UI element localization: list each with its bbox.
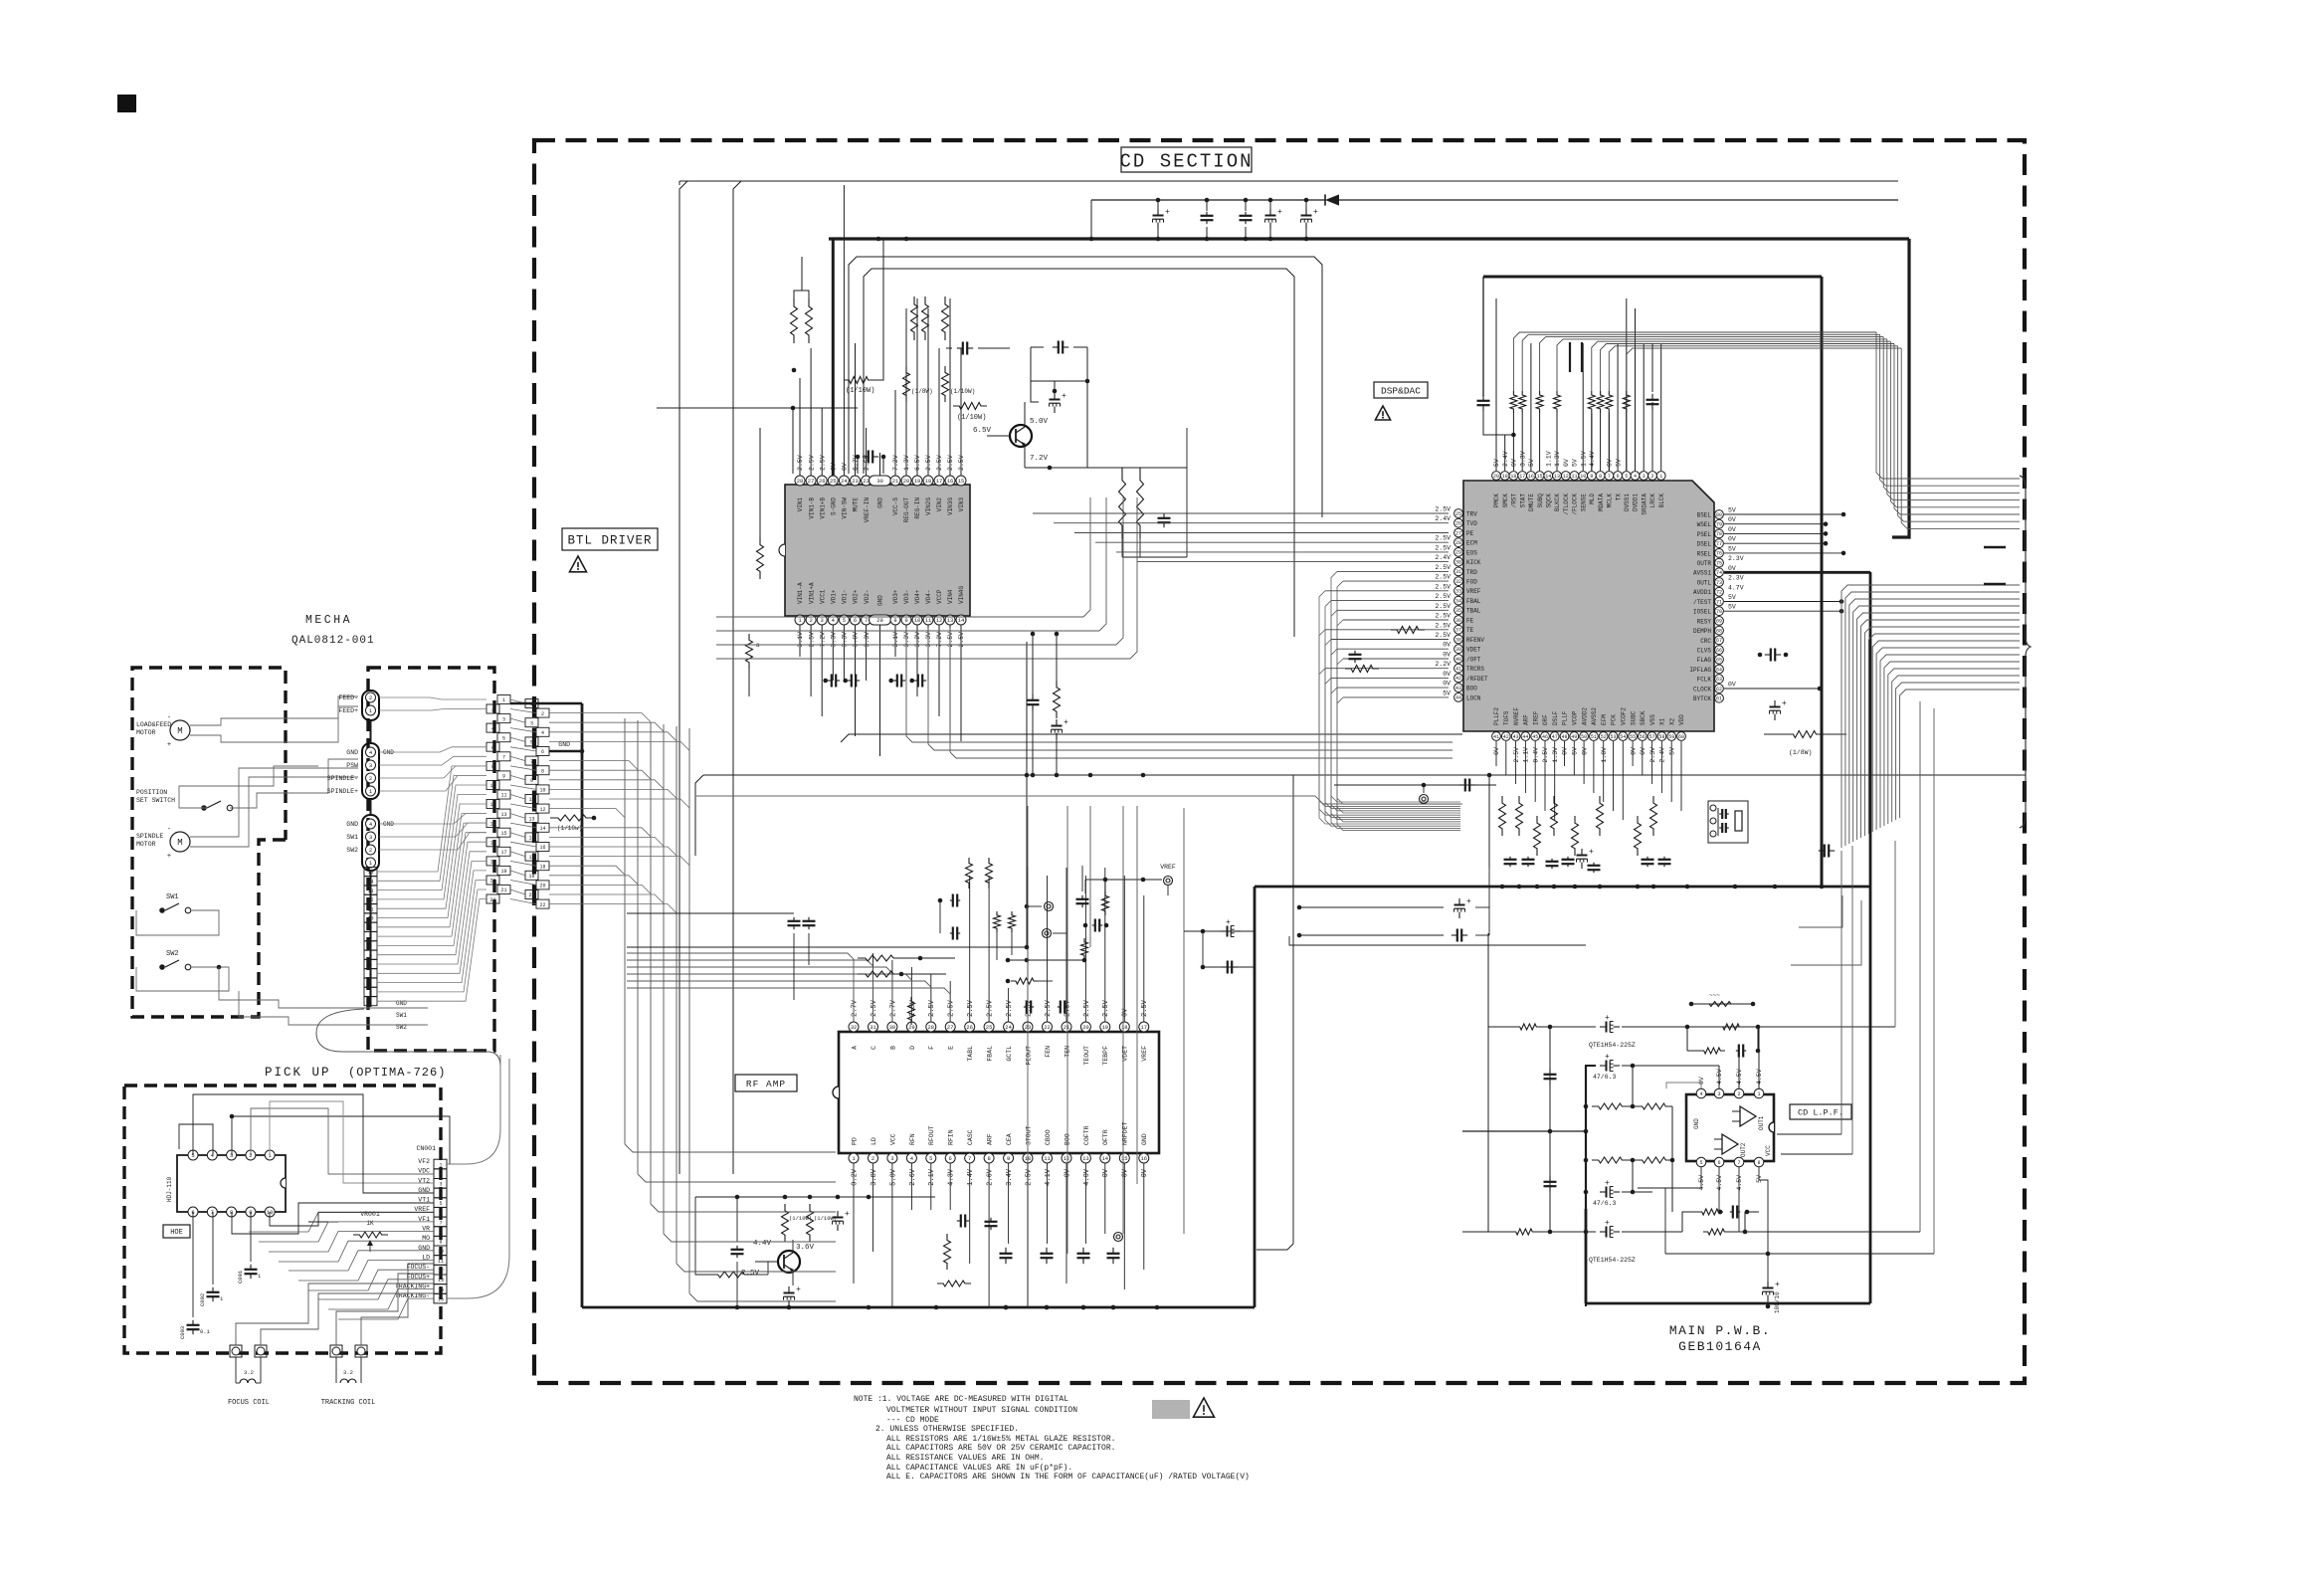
svg-text:28: 28 xyxy=(1455,540,1461,546)
svg-text:2.5V: 2.5V xyxy=(1435,544,1451,551)
resistor v left of BTL xyxy=(757,537,764,579)
svg-text:3.6V: 3.6V xyxy=(796,1244,815,1252)
nested corners left of thick 1881 xyxy=(1799,895,1842,927)
svg-text:5: 5 xyxy=(929,1155,932,1162)
svg-text:VCC: VCC xyxy=(889,1133,896,1145)
svg-text:CRC: CRC xyxy=(1700,638,1711,645)
svg-text:31: 31 xyxy=(870,1024,876,1031)
svg-text:IREF: IREF xyxy=(1532,710,1539,725)
svg-text:22: 22 xyxy=(539,902,545,908)
svg-text:2: 2 xyxy=(369,990,372,996)
ecap 47/6.3 upper xyxy=(1586,1066,1596,1106)
LPF resistor row y1056 xyxy=(1686,1027,1688,1051)
svg-text:7: 7 xyxy=(968,1155,971,1162)
svg-text:(1/10W): (1/10W) xyxy=(950,388,975,395)
svg-text:5: 5 xyxy=(530,740,533,746)
svg-text:2.5V: 2.5V xyxy=(1542,747,1549,763)
wires col1 to col2 xyxy=(510,699,525,703)
cap right of BTL pair xyxy=(1163,513,1165,518)
DSP pin 53 (bottom) xyxy=(1609,732,1618,741)
RF pin 25 (top) xyxy=(984,1022,994,1032)
svg-text:M: M xyxy=(177,726,182,736)
svg-text:26: 26 xyxy=(819,478,826,485)
LPF left frame vertical xyxy=(1487,933,1489,1232)
svg-text:2.3V: 2.3V xyxy=(1649,747,1656,763)
svg-text:TEBPF: TEBPF xyxy=(1102,1046,1109,1066)
bus corner verticals xyxy=(678,181,680,185)
resistor above BTL pins 28/27 xyxy=(791,298,798,343)
svg-text:8: 8 xyxy=(491,764,494,770)
svg-text:5V: 5V xyxy=(1728,594,1736,601)
LPF pin7 wire xyxy=(1738,1167,1740,1232)
svg-text:C001: C001 xyxy=(237,1270,244,1284)
bus y779 extension xyxy=(1027,774,1293,776)
svg-text:2.4V: 2.4V xyxy=(1435,554,1451,561)
wire y965 xyxy=(1008,959,1084,961)
svg-text:5V: 5V xyxy=(1615,459,1622,467)
svg-text:POSITION: POSITION xyxy=(136,789,167,796)
svg-text:VREF: VREF xyxy=(1141,1046,1148,1062)
svg-text:0V: 0V xyxy=(1443,681,1451,688)
svg-text:1.5V: 1.5V xyxy=(1580,451,1587,467)
svg-text:MUTE: MUTE xyxy=(853,497,860,512)
svg-text:3: 3 xyxy=(369,981,372,987)
junction dots bus y891 xyxy=(1500,885,1505,889)
svg-text:FEED-: FEED- xyxy=(338,694,358,701)
resistor v x1090 low xyxy=(1081,938,1088,959)
svg-text:VDD: VDD xyxy=(1678,714,1685,725)
svg-text:TVD: TVD xyxy=(1466,520,1477,527)
svg-text:TOFS: TOFS xyxy=(1503,710,1510,725)
svg-text:15: 15 xyxy=(500,831,506,837)
svg-text:+: + xyxy=(1782,699,1787,708)
vertical x1032 xyxy=(1026,642,1028,947)
wire y1260 corner right xyxy=(1665,1253,1934,1255)
svg-text:0V: 0V xyxy=(1102,1168,1110,1177)
svg-text:BTL DRIVER: BTL DRIVER xyxy=(567,534,652,548)
svg-text:SET SWITCH: SET SWITCH xyxy=(136,797,175,804)
svg-text:45: 45 xyxy=(1532,734,1538,740)
svg-text:3: 3 xyxy=(502,716,505,722)
svg-text:CD SECTION: CD SECTION xyxy=(1119,150,1253,172)
DSP pin 56 (bottom) xyxy=(1638,732,1646,741)
BTL pin 23 (top) xyxy=(851,476,861,486)
page corner marker xyxy=(117,95,136,112)
vertical loop right of BTL xyxy=(1186,428,1188,557)
DSP pin 36 (left) xyxy=(1454,616,1463,625)
svg-text:~~~: ~~~ xyxy=(1709,992,1720,999)
svg-text:71: 71 xyxy=(1716,599,1722,605)
CN001 exit curve xyxy=(447,1055,500,1164)
thick bus y891 xyxy=(1255,886,1870,889)
svg-text:CLVS: CLVS xyxy=(1697,648,1712,655)
svg-text:7: 7 xyxy=(369,944,372,950)
RF bottom wires xyxy=(853,1163,855,1284)
cap above ecap xyxy=(1053,346,1059,348)
BTL pin 12 (bottom) xyxy=(934,615,944,625)
RF pin 26 (top) xyxy=(965,1022,975,1032)
wire DSP top to exit bundle xyxy=(1513,332,1876,391)
svg-text:FEED+: FEED+ xyxy=(338,707,358,714)
svg-text:11: 11 xyxy=(528,797,534,803)
svg-text:37: 37 xyxy=(1455,628,1461,634)
svg-text:14: 14 xyxy=(367,880,373,886)
svg-text:10: 10 xyxy=(914,617,921,624)
pickup IC pin 8 (bottom) xyxy=(227,1207,237,1217)
RF pin 8 (bottom) xyxy=(984,1153,994,1163)
DSP pin 50 (bottom) xyxy=(1580,732,1589,741)
svg-text:GND: GND xyxy=(877,595,884,606)
LPF pin3 wire xyxy=(1718,1087,1720,1089)
svg-text:B: B xyxy=(889,1046,896,1050)
y779 left corner xyxy=(695,775,703,856)
svg-text:SW1: SW1 xyxy=(346,834,358,841)
svg-text:VREF-IN: VREF-IN xyxy=(864,497,871,523)
tracking coil xyxy=(335,1357,337,1383)
svg-text:5V: 5V xyxy=(1443,690,1451,696)
RF pin 31 (top) xyxy=(869,1022,878,1032)
svg-text:+: + xyxy=(167,853,171,861)
test point DSP bottom xyxy=(1334,784,1496,786)
svg-text:AVSS2: AVSS2 xyxy=(1591,707,1598,725)
svg-text:77: 77 xyxy=(1716,541,1722,547)
svg-text:ORF: ORF xyxy=(1542,714,1549,725)
svg-text:13: 13 xyxy=(947,617,954,624)
svg-text:RFOUT: RFOUT xyxy=(928,1125,935,1145)
svg-text:79: 79 xyxy=(1716,522,1722,528)
resistors 1/10W above Q702 xyxy=(782,1204,789,1242)
svg-text:14: 14 xyxy=(958,617,965,624)
svg-text:11: 11 xyxy=(925,617,932,624)
BTL pin 25 (top) xyxy=(828,476,838,486)
svg-text:(1/10W): (1/10W) xyxy=(957,414,986,422)
resistor h 1/10W xyxy=(844,377,873,384)
svg-text:4: 4 xyxy=(369,972,372,978)
thick bus x1880 down xyxy=(1869,572,1872,1303)
BTL bottom pin wires xyxy=(799,625,801,657)
LPF pin1 wire xyxy=(1758,1027,1760,1088)
capacitor C003 xyxy=(192,1320,194,1325)
BTL pin 3 (bottom) xyxy=(817,615,827,625)
svg-text:0V: 0V xyxy=(1728,565,1736,572)
wire bus under BTL xyxy=(841,734,1462,742)
GND wire box1 xyxy=(510,702,582,705)
BTL pin 29 (bottom) xyxy=(870,615,891,625)
DSP pin 39 (left) xyxy=(1454,645,1463,654)
svg-text:24: 24 xyxy=(841,478,848,485)
svg-text:0V: 0V xyxy=(1563,459,1570,467)
wire DSP top to exit bundle xyxy=(1540,337,1884,391)
svg-text:46: 46 xyxy=(1542,734,1548,740)
RF pin 14 (bottom) xyxy=(1100,1153,1110,1163)
svg-text:SPINDLE+: SPINDLE+ xyxy=(327,788,358,795)
svg-text:17: 17 xyxy=(936,478,943,485)
svg-text:GND: GND xyxy=(877,497,884,508)
svg-text:8: 8 xyxy=(1757,1160,1760,1166)
DSP pin 1 (top) xyxy=(1656,472,1665,481)
RF pin 7 (bottom) xyxy=(965,1153,975,1163)
svg-text:+: + xyxy=(1064,718,1068,727)
RF pin 16 (bottom) xyxy=(1139,1153,1149,1163)
svg-text:PE: PE xyxy=(1466,530,1474,537)
svg-text:32: 32 xyxy=(1455,579,1461,585)
svg-text:32: 32 xyxy=(851,1024,858,1031)
svg-text:VT1: VT1 xyxy=(418,1197,430,1204)
svg-text:19: 19 xyxy=(500,869,506,875)
load&feed motor xyxy=(170,720,190,740)
capacitor top row xyxy=(1305,200,1307,211)
resistor row y1166 xyxy=(1584,1158,1589,1163)
DSP pin 69 (right) xyxy=(1715,617,1724,626)
svg-text:BOO: BOO xyxy=(1466,686,1477,692)
svg-text:1.3V: 1.3V xyxy=(1554,451,1561,467)
DSP pin 59 (bottom) xyxy=(1667,732,1676,741)
RF pin 1 (bottom) xyxy=(849,1153,859,1163)
svg-text:3: 3 xyxy=(890,1155,893,1162)
test point VREF xyxy=(1164,877,1173,886)
RF pin 10 (bottom) xyxy=(1023,1153,1033,1163)
svg-text:13: 13 xyxy=(367,889,373,894)
svg-text:+: + xyxy=(1605,1053,1610,1062)
DSP pin 11 (top) xyxy=(1570,472,1579,481)
svg-text:14: 14 xyxy=(539,826,545,832)
svg-text:VIN2: VIN2 xyxy=(936,497,943,512)
resistors h x860 y963 xyxy=(858,955,901,961)
svg-text:VO4+: VO4+ xyxy=(914,589,921,604)
capacitor top row xyxy=(1269,200,1271,211)
svg-text:SW2: SW2 xyxy=(346,847,358,854)
svg-text:25: 25 xyxy=(1455,511,1461,517)
svg-text:56: 56 xyxy=(1640,734,1646,740)
svg-text:18: 18 xyxy=(489,860,495,866)
RF pin 5 (bottom) xyxy=(926,1153,936,1163)
svg-text:2: 2 xyxy=(1650,474,1653,480)
svg-text:X1: X1 xyxy=(1659,717,1666,725)
DSP pin 64 (right) xyxy=(1715,665,1724,674)
svg-text:3: 3 xyxy=(1643,474,1646,480)
wire y1137 to left xyxy=(1462,1130,1586,1132)
MECHA dashed box B xyxy=(368,668,494,1051)
power bus thick right corner xyxy=(1892,239,1909,537)
svg-text:+: + xyxy=(1605,1014,1610,1023)
DSP pin 74 (right) xyxy=(1715,568,1724,577)
svg-text:DMUTE: DMUTE xyxy=(1528,494,1535,511)
svg-text:3.2: 3.2 xyxy=(244,1369,254,1376)
BTL pin 5 (bottom) xyxy=(839,615,849,625)
svg-text:2.3V: 2.3V xyxy=(1728,555,1744,562)
DSP pin 67 (right) xyxy=(1715,636,1724,645)
DSP pin 9 (top) xyxy=(1588,472,1597,481)
svg-text:5: 5 xyxy=(1625,474,1628,480)
position switch wires xyxy=(179,766,318,808)
svg-text:1: 1 xyxy=(1757,1091,1760,1097)
verticals above RF from mid region xyxy=(1027,806,1029,1307)
wire y800 bevel right xyxy=(696,796,1462,804)
BTL pin 21 (top) xyxy=(890,476,900,486)
cap y940 xyxy=(1299,934,1444,936)
svg-text:VIN2G: VIN2G xyxy=(925,497,932,515)
cap v x1088 xyxy=(1081,895,1083,899)
svg-text:QTE1H54-225Z: QTE1H54-225Z xyxy=(1589,1257,1636,1264)
resistor 1/8W right DSP xyxy=(1787,731,1823,738)
DSP pin 20 (top) xyxy=(1492,472,1501,481)
svg-text:+: + xyxy=(1226,918,1231,927)
DSP pin 62 (right) xyxy=(1715,685,1724,693)
resistor 1/10W right xyxy=(942,366,949,402)
svg-text:GND: GND xyxy=(346,821,358,828)
resistor on DSP top pin (k=5) xyxy=(1597,391,1604,413)
svg-text:36: 36 xyxy=(1455,618,1461,624)
MECHA column 1 boxes xyxy=(497,695,510,704)
power bus thick x1491 xyxy=(1483,276,1822,279)
svg-text:MOTOR: MOTOR xyxy=(136,729,156,736)
svg-text:CN001: CN001 xyxy=(416,1145,436,1152)
DSP pin 44 (bottom) xyxy=(1521,732,1530,741)
svg-text:VCOP: VCOP xyxy=(1572,710,1579,725)
DSP pin 44 (left) xyxy=(1454,693,1463,702)
wire y918 caps xyxy=(627,912,794,914)
svg-text:14: 14 xyxy=(438,1287,444,1293)
svg-text:16: 16 xyxy=(1140,1155,1147,1162)
fan: inner column to col1 xyxy=(377,766,486,872)
svg-text:11: 11 xyxy=(500,793,506,799)
BTL pin 2 (bottom) xyxy=(806,615,816,625)
svg-text:RFIN: RFIN xyxy=(948,1129,955,1145)
svg-text:REG-OUT: REG-OUT xyxy=(903,497,910,523)
svg-text:4: 4 xyxy=(439,1191,442,1197)
RF top pin wires xyxy=(853,990,855,1022)
svg-text:30: 30 xyxy=(876,478,883,485)
svg-text:8: 8 xyxy=(1599,474,1602,480)
svg-text:2.5V: 2.5V xyxy=(987,999,995,1017)
svg-text:2: 2 xyxy=(541,711,544,717)
BTL pin 19 (top) xyxy=(912,476,922,486)
svg-text:49: 49 xyxy=(1571,734,1577,740)
thick vertical x1594 xyxy=(1585,1066,1587,1306)
svg-text:7: 7 xyxy=(1737,1160,1740,1166)
svg-text:15: 15 xyxy=(1537,474,1543,480)
svg-text:16: 16 xyxy=(947,478,954,485)
resistor on DSP top pin (k=2) xyxy=(1536,391,1543,413)
svg-text:AVSS1: AVSS1 xyxy=(1693,570,1711,577)
svg-text:14: 14 xyxy=(489,821,495,827)
pickup fan to CN lower xyxy=(249,1212,434,1232)
svg-text:LD: LD xyxy=(871,1137,877,1145)
svg-text:68: 68 xyxy=(1716,628,1722,634)
svg-text:12: 12 xyxy=(438,1269,444,1275)
svg-text:SQCK: SQCK xyxy=(1546,494,1553,508)
BTL pin 6 (bottom) xyxy=(851,615,861,625)
pickup IC pin 3 (top) xyxy=(227,1150,237,1160)
caps right of DSP xyxy=(1765,654,1771,656)
load&feed motor wires xyxy=(190,696,358,725)
LPF pin4 wire xyxy=(1666,1083,1701,1088)
LPF pin 2 xyxy=(1734,1088,1744,1098)
svg-text:1K: 1K xyxy=(366,1220,374,1227)
svg-text:5.0V: 5.0V xyxy=(1030,418,1049,426)
vertical x1497 to DSP xyxy=(1488,775,1490,868)
pickup IC pin 10 (bottom) xyxy=(265,1207,275,1217)
capacitor C002 xyxy=(212,1287,214,1292)
svg-text:3: 3 xyxy=(439,1182,442,1188)
RF pin 2 (bottom) xyxy=(869,1153,878,1163)
svg-text:FEOUT: FEOUT xyxy=(1026,1046,1033,1066)
svg-text:SPINDLE: SPINDLE xyxy=(136,833,163,840)
resistor on DSP top pin (k=3) xyxy=(1554,391,1561,413)
DSP pin 42 (bottom) xyxy=(1501,732,1510,741)
legend warning triangle xyxy=(1194,1398,1215,1417)
svg-text:SENSE: SENSE xyxy=(1580,494,1587,511)
svg-text:19: 19 xyxy=(914,478,921,485)
svg-text:13: 13 xyxy=(1082,1155,1089,1162)
capacitor x970 xyxy=(957,347,963,349)
svg-text:/TLOCK: /TLOCK xyxy=(1563,494,1570,515)
svg-text:VCOF2: VCOF2 xyxy=(1621,707,1628,725)
svg-text:2.5V: 2.5V xyxy=(1435,506,1451,513)
svg-text:17: 17 xyxy=(1140,1024,1147,1031)
svg-text:4.1V: 4.1V xyxy=(1045,1168,1053,1186)
RF pin 20 (top) xyxy=(1080,1022,1090,1032)
DSP pin 49 (bottom) xyxy=(1570,732,1579,741)
DSP pin 52 (bottom) xyxy=(1599,732,1608,741)
svg-text:+: + xyxy=(1589,848,1594,857)
svg-text:12: 12 xyxy=(367,897,373,903)
svg-text:HDJ-110: HDJ-110 xyxy=(166,1176,173,1202)
svg-text:2.5V: 2.5V xyxy=(1513,747,1520,763)
svg-text:VCC-S: VCC-S xyxy=(892,497,899,515)
svg-text:(1/10w): (1/10w) xyxy=(557,825,582,832)
svg-text:21: 21 xyxy=(528,892,534,898)
svg-text:70: 70 xyxy=(1716,609,1722,615)
svg-text:42: 42 xyxy=(1503,734,1509,740)
svg-text:+: + xyxy=(167,741,171,749)
svg-text:20: 20 xyxy=(1082,1024,1089,1031)
svg-text:28: 28 xyxy=(797,478,804,485)
junction dots on top bus xyxy=(876,237,881,242)
pickup IC pin 6 (bottom) xyxy=(188,1207,198,1217)
MECHA inner pin column xyxy=(364,868,377,877)
svg-text:2.3V: 2.3V xyxy=(1728,575,1744,582)
svg-text:DEMPH: DEMPH xyxy=(1693,628,1711,635)
RF top-left bundle xyxy=(627,953,854,1022)
svg-text:28: 28 xyxy=(927,1024,934,1031)
svg-text:2: 2 xyxy=(871,1155,874,1162)
svg-text:0.1: 0.1 xyxy=(200,1328,211,1335)
svg-text:RF AMP: RF AMP xyxy=(746,1079,786,1089)
svg-text:ECM: ECM xyxy=(1466,540,1477,547)
wire DSP top to exit bundle xyxy=(1627,348,1901,391)
LPF pin 5 xyxy=(1696,1157,1706,1167)
svg-text:0V: 0V xyxy=(1640,747,1646,755)
DSP&DAC label xyxy=(1374,382,1428,398)
svg-text:5V: 5V xyxy=(1493,459,1500,467)
BTL pin 14 (bottom) xyxy=(956,615,966,625)
DSP pin 41 (left) xyxy=(1454,664,1463,673)
svg-text:PMCK: PMCK xyxy=(1493,494,1500,508)
svg-text:EOS: EOS xyxy=(1466,549,1477,556)
svg-text:35: 35 xyxy=(1455,608,1461,614)
svg-text:10: 10 xyxy=(539,788,545,794)
svg-text:2.5V: 2.5V xyxy=(1435,613,1451,620)
svg-text:2.5V: 2.5V xyxy=(928,999,936,1017)
DSP pin 13 (top) xyxy=(1553,472,1562,481)
BTL pin 9 (bottom) xyxy=(901,615,911,625)
svg-text:FE: FE xyxy=(1466,617,1474,624)
svg-text:REG-IN: REG-IN xyxy=(914,497,921,519)
DSP pin 66 (right) xyxy=(1715,646,1724,655)
svg-text:47/6.3: 47/6.3 xyxy=(1593,1074,1617,1081)
svg-text:MAIN P.W.B.: MAIN P.W.B. xyxy=(1669,1323,1771,1338)
